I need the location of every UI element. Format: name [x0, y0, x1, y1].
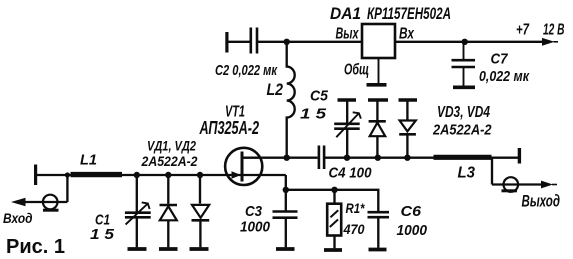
svg-text:12 В: 12 В: [543, 22, 565, 39]
svg-text:1 5: 1 5: [300, 106, 327, 123]
svg-text:КР1157ЕН502А: КР1157ЕН502А: [367, 4, 451, 23]
svg-text:С6: С6: [401, 203, 422, 220]
svg-text:Вход: Вход: [3, 210, 33, 226]
svg-text:470: 470: [343, 221, 365, 237]
svg-text:L3: L3: [458, 165, 476, 182]
svg-text:L1: L1: [80, 152, 97, 169]
svg-text:С7: С7: [491, 51, 509, 68]
svg-text:1 5: 1 5: [90, 226, 115, 243]
svg-text:С2 0,022 мк: С2 0,022 мк: [215, 62, 278, 79]
svg-text:С5: С5: [310, 88, 329, 105]
svg-text:Общ: Общ: [344, 62, 369, 79]
svg-text:АП325А-2: АП325А-2: [199, 118, 259, 138]
svg-text:С3: С3: [245, 203, 263, 220]
svg-text:VД1, VД2: VД1, VД2: [147, 138, 196, 154]
svg-text:1000: 1000: [240, 219, 271, 236]
svg-text:L2: L2: [267, 80, 284, 99]
svg-text:2А522А-2: 2А522А-2: [432, 122, 492, 139]
svg-text:Выход: Выход: [522, 192, 561, 211]
svg-text:Вх: Вх: [399, 25, 415, 42]
svg-text:Вых: Вых: [336, 25, 360, 42]
svg-text:0,022 мк: 0,022 мк: [479, 68, 530, 85]
svg-text:Рис. 1: Рис. 1: [6, 236, 65, 258]
svg-text:С4 100: С4 100: [329, 164, 373, 181]
svg-text:VD3, VD4: VD3, VD4: [437, 104, 490, 121]
svg-text:DA1: DA1: [330, 4, 361, 23]
svg-text:R1*: R1*: [346, 200, 365, 216]
svg-text:+7: +7: [516, 21, 530, 38]
svg-text:2А522А-2: 2А522А-2: [141, 153, 198, 169]
svg-text:1000: 1000: [397, 222, 428, 239]
